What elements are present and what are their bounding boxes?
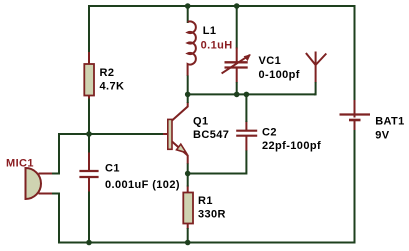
junction collector node (185, 92, 191, 98)
svg-text:0.001uF (102): 0.001uF (102) (105, 179, 180, 191)
transistor Q1 (163, 102, 188, 164)
wire right vertical (top rail to battery) (354, 5, 356, 101)
junction emitter node (185, 171, 191, 177)
value 22pf-100pf (262, 140, 321, 152)
wire left vertical (top rail to R2) (88, 5, 90, 54)
svg-text:R1: R1 (198, 195, 213, 207)
capacitor C2 (236, 121, 257, 151)
label MIC1 (6, 158, 34, 170)
wire VC1 to mid rail (236, 82, 238, 95)
value 0-100pf (259, 69, 300, 81)
value 9V (375, 129, 390, 141)
junction VC1 top (234, 3, 240, 9)
label C1 (105, 163, 120, 175)
label Q1 (193, 116, 208, 128)
svg-text:22pf-100pf: 22pf-100pf (262, 140, 321, 152)
capacitor C1 (79, 152, 98, 193)
value 0.001uF (102) (105, 179, 180, 191)
wire battery to ground rail (354, 130, 356, 243)
wire base junction to Q1 base (88, 133, 164, 135)
wire C2 to mid rail (245, 94, 247, 123)
wire base junction to C1 (88, 134, 90, 153)
svg-text:BC547: BC547 (193, 129, 229, 141)
wire emitter node to R1 (187, 173, 189, 187)
wire top rail (88, 5, 356, 7)
svg-text:BAT1: BAT1 (375, 116, 405, 128)
wire R1 to ground rail (187, 228, 189, 243)
junction L1 top (185, 3, 191, 9)
svg-text:L1: L1 (203, 25, 217, 37)
svg-text:4.7K: 4.7K (100, 81, 125, 93)
junction C1 ground (86, 240, 92, 246)
value 4.7K (100, 81, 125, 93)
wire emitter node to C2 bottom (187, 150, 246, 174)
svg-text:C1: C1 (105, 163, 120, 175)
wire branch to MIC1 top (51, 134, 88, 174)
wire top rail to L1 (187, 5, 189, 23)
junction base node (86, 131, 92, 137)
battery BAT1 (340, 100, 371, 131)
wire ground rail (58, 242, 356, 244)
antenna AE (306, 52, 326, 83)
label VC1 (259, 55, 282, 67)
resistor R1 (183, 186, 193, 230)
svg-text:330R: 330R (198, 208, 226, 220)
value BC547 (193, 129, 229, 141)
value 330R (198, 208, 226, 220)
variable capacitor VC1 (222, 48, 251, 83)
junction VC1 bottom (234, 92, 240, 98)
label C2 (262, 126, 277, 138)
wire antenna to mid rail (314, 82, 316, 94)
svg-text:9V: 9V (375, 129, 390, 141)
junction R1 ground (185, 240, 191, 246)
svg-text:Q1: Q1 (193, 116, 208, 128)
value 0.1uH (201, 39, 233, 51)
resistor R2 (84, 52, 94, 100)
svg-text:0-100pf: 0-100pf (259, 69, 300, 81)
svg-text:R2: R2 (100, 67, 115, 79)
label L1 (203, 25, 217, 37)
wire collector to mid rail (187, 94, 189, 103)
label R2 (100, 67, 115, 79)
svg-text:VC1: VC1 (259, 55, 282, 67)
label R1 (198, 195, 213, 207)
wire mid rail (187, 93, 316, 95)
junction C2 top (244, 92, 250, 98)
svg-text:MIC1: MIC1 (6, 158, 34, 170)
microphone MIC1 (26, 168, 53, 199)
wire L1 to mid rail (187, 76, 189, 96)
svg-text:C2: C2 (262, 126, 277, 138)
wire emitter to node (187, 164, 189, 175)
svg-text:0.1uH: 0.1uH (201, 39, 233, 51)
wire top rail to VC1 (236, 5, 238, 49)
wire MIC1 bottom to ground rail (51, 194, 59, 244)
wire C1 to ground rail (88, 192, 90, 244)
inductor L1 (188, 21, 196, 76)
wire R2 to base junction (88, 99, 90, 136)
label BAT1 (375, 116, 405, 128)
